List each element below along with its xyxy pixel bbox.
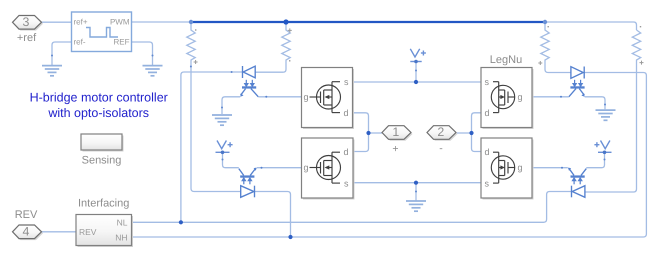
junction dot NL — [179, 220, 183, 224]
port 4 hexagon — [13, 209, 44, 240]
svg-text:Sensing: Sensing — [82, 155, 122, 167]
svg-text:g: g — [304, 92, 309, 102]
Interfacing block — [76, 197, 133, 247]
ground G1 under ref- — [42, 66, 62, 76]
port 2 hexagon — [427, 125, 458, 154]
port 1 hexagon — [382, 125, 413, 155]
svg-text:s: s — [485, 77, 490, 87]
svg-text:s: s — [485, 179, 490, 189]
PWM controller block U5 — [72, 12, 132, 52]
wire port2 to node B — [457, 132, 472, 134]
wire UR drain to node B and LR drain — [472, 113, 482, 152]
svg-text:d: d — [485, 147, 490, 157]
svg-text:PWM: PWM — [110, 18, 130, 27]
svg-text:g: g — [518, 92, 523, 102]
svg-text:-: - — [439, 142, 443, 154]
ground G3 upper-left opto emitter — [212, 115, 232, 125]
port 3 hexagon — [13, 15, 44, 44]
opto U-L light arrows — [245, 80, 254, 86]
wire PWM output to R1 junction — [132, 21, 192, 23]
wire bold PWM rail — [191, 21, 545, 23]
svg-text:with opto-isolators: with opto-isolators — [47, 106, 149, 120]
svg-text:REV: REV — [15, 209, 38, 221]
svg-text:ref+: ref+ — [74, 18, 88, 27]
wire ref- to ground G1 — [52, 42, 72, 66]
svg-text:3: 3 — [23, 15, 30, 29]
tick marks on physical connection stems — [51, 55, 606, 193]
svg-text:+ref: +ref — [17, 32, 37, 44]
opto U-R phototransistor Q3 — [570, 86, 584, 88]
power +V lower-right — [594, 141, 611, 153]
wire NL net from Interfacing to LED4 cathode — [132, 192, 572, 223]
mosfet block U2 lower-left — [302, 138, 355, 200]
opto L-L phototransistor Q2 — [240, 175, 254, 177]
opto L-R collector to +V wire — [581, 169, 586, 176]
wire LED2 cathode down to NH junction — [255, 192, 291, 238]
junction dot R3 top (light) — [543, 20, 547, 24]
svg-text:REF: REF — [114, 38, 130, 47]
opto L-L collector to V+ wire — [239, 169, 244, 176]
svg-text:g: g — [518, 163, 523, 173]
wire ground stem mid — [415, 183, 417, 201]
svg-text:REV: REV — [79, 227, 97, 237]
wire port4 to REV input — [41, 231, 76, 233]
opto U-R emitter to ground wire — [579, 89, 584, 96]
svg-text:NL: NL — [117, 218, 128, 228]
power V+ top middle — [410, 49, 426, 62]
svg-text:Interfacing: Interfacing — [78, 197, 129, 209]
svg-text:NH: NH — [115, 233, 127, 243]
power V+ lower-left — [216, 141, 233, 153]
svg-text:2: 2 — [437, 125, 444, 139]
opto U-R collector to gate wire — [569, 89, 576, 97]
wire NH net from Interfacing to LED3 cathode — [132, 73, 647, 238]
opto L-R emitter to gate wire — [569, 168, 574, 175]
wire top rail R3 junction to R4 corner — [545, 22, 637, 30]
opto U-L emitter to ground wire — [241, 89, 246, 96]
svg-text:1: 1 — [392, 125, 399, 139]
opto U-R light arrows — [573, 80, 582, 86]
svg-text:LegNu: LegNu — [490, 54, 522, 66]
opto L-L LED D2 — [241, 186, 255, 198]
opto U-L collector to gate wire — [251, 89, 258, 97]
resistor R3 — [541, 22, 571, 73]
svg-text:H-bridge motor controller: H-bridge motor controller — [30, 91, 168, 105]
svg-text:d: d — [343, 147, 348, 157]
opto L-L emitter to gate wire — [250, 168, 256, 175]
resistor R1 — [187, 22, 241, 192]
opto L-L light arrows — [242, 178, 251, 184]
junction dot ground rail — [414, 181, 418, 185]
junction dot R2 top — [283, 19, 288, 24]
Sensing block — [81, 134, 124, 167]
resistor R4 — [585, 30, 641, 192]
opto L-R LED D4 — [572, 186, 585, 198]
wire upper source rail V+ — [353, 81, 482, 83]
junction node B dot — [469, 131, 473, 135]
mosfet block U1 upper-left — [302, 68, 355, 130]
polarity marks resistors — [194, 28, 644, 65]
junction dot NH — [288, 235, 292, 239]
junction node A dot — [366, 131, 370, 135]
svg-text:s: s — [344, 77, 349, 87]
resistor R2 — [256, 22, 291, 72]
opto U-L LED D1 — [243, 66, 256, 78]
wire UL drain to node A and LL drain — [353, 113, 369, 152]
svg-text:g: g — [304, 163, 309, 173]
junction dot R1 top (light) — [189, 20, 193, 24]
ground G5 lower rail — [406, 201, 426, 211]
opto L-R phototransistor Q4 — [571, 175, 585, 177]
ground G4 upper-right opto emitter — [596, 110, 616, 120]
junction dot V+ rail — [414, 80, 418, 84]
svg-text:s: s — [344, 179, 349, 189]
wire REF to ground G2 — [132, 42, 153, 66]
mosfet block U4 lower-right — [481, 138, 534, 200]
opto U-L phototransistor Q1 — [242, 86, 256, 88]
ground G2 under REF — [143, 66, 163, 76]
svg-text:d: d — [485, 108, 490, 118]
svg-text:ref-: ref- — [74, 38, 86, 47]
opto L-R light arrows — [573, 178, 582, 184]
wire V+ stem to upper rail — [415, 62, 417, 83]
svg-text:+: + — [392, 143, 398, 155]
wire port3 to ref+ — [41, 21, 72, 23]
svg-text:4: 4 — [23, 224, 30, 238]
mosfet block U3 upper-right (LegNu) — [481, 68, 534, 130]
wire node A to port1 — [369, 132, 383, 134]
wire LED1 cathode to NL feed vertical — [181, 72, 243, 222]
svg-text:d: d — [343, 108, 348, 118]
opto U-R LED D3 — [571, 67, 584, 79]
wire lower source rail to ground — [353, 182, 481, 184]
